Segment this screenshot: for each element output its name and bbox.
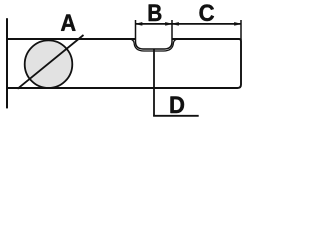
groove outer shoulder curve xyxy=(131,39,178,51)
arrow C right xyxy=(234,22,241,25)
arrow B left xyxy=(136,22,143,25)
hole circle xyxy=(25,40,73,88)
label B xyxy=(149,5,162,22)
left cut line xyxy=(6,18,8,108)
label C xyxy=(200,5,215,22)
top edge right segment with rounded right end xyxy=(172,39,241,88)
dimension line B-C xyxy=(136,23,242,25)
top edge left segment xyxy=(6,38,136,40)
label D xyxy=(171,97,185,114)
label A xyxy=(61,15,76,31)
bottom edge xyxy=(6,87,175,89)
arrow B right xyxy=(165,22,172,25)
leader line D horizontal xyxy=(153,115,199,117)
groove inner profile with extension lines B xyxy=(136,20,173,49)
leader line D vertical xyxy=(153,49,155,116)
arrow C left xyxy=(172,22,179,25)
extension line right end xyxy=(240,20,242,40)
leader line A xyxy=(18,35,84,89)
